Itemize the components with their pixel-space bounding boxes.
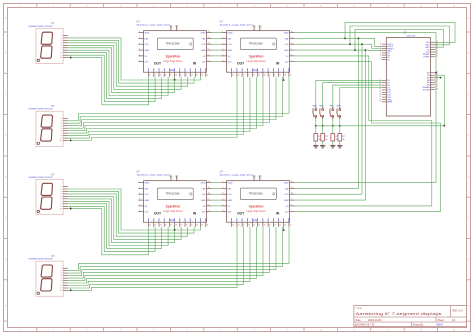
ground symbol below R2 bbox=[320, 145, 325, 148]
svg-text:5: 5 bbox=[380, 52, 381, 54]
svg-text:Aansturing 6" 7-segment displa: Aansturing 6" 7-segment displays bbox=[356, 312, 442, 316]
svg-text:6: 6 bbox=[380, 54, 381, 56]
junction 12V vertical bbox=[440, 77, 442, 79]
7-segment display DS4 bbox=[28, 256, 68, 296]
7-segment display DS3 bbox=[28, 174, 68, 214]
svg-text:4: 4 bbox=[139, 199, 140, 201]
svg-text:2: 2 bbox=[139, 187, 140, 189]
svg-text:LAT: LAT bbox=[145, 187, 150, 190]
svg-text:5: 5 bbox=[139, 54, 140, 56]
svg-text:14: 14 bbox=[155, 225, 157, 227]
svg-text:20: 20 bbox=[269, 225, 271, 227]
svg-text:13: 13 bbox=[379, 89, 381, 91]
svg-text:10: 10 bbox=[291, 43, 293, 45]
wire GND net U2 to U4 bbox=[295, 33, 436, 183]
junction SW3/rail bbox=[332, 125, 334, 127]
svg-text:1: 1 bbox=[139, 31, 140, 33]
svg-text:SER: SER bbox=[228, 50, 233, 52]
svg-text:8: 8 bbox=[208, 54, 209, 56]
wire SW3 to MCU bbox=[333, 85, 382, 107]
svg-text:2: 2 bbox=[222, 37, 223, 39]
junction at DS3 common pins bbox=[70, 206, 72, 209]
junction SW4/rail bbox=[339, 125, 341, 127]
IC U2 SparkFun Large Digit Driver (TPIC6C596) bbox=[220, 21, 295, 77]
svg-text:15: 15 bbox=[379, 94, 381, 96]
svg-text:13: 13 bbox=[232, 75, 234, 77]
wire 5V rail to switches bbox=[316, 75, 445, 126]
svg-text:12V: 12V bbox=[285, 212, 289, 214]
svg-text:8: 8 bbox=[291, 54, 292, 56]
wire SW1 to R1 bbox=[315, 119, 317, 134]
svg-text:12V: 12V bbox=[170, 68, 175, 72]
svg-text:6: 6 bbox=[222, 210, 223, 212]
svg-text:25: 25 bbox=[436, 56, 438, 58]
svg-text:OUT: OUT bbox=[237, 61, 245, 65]
svg-text:SER: SER bbox=[284, 200, 289, 202]
svg-text:24: 24 bbox=[207, 225, 209, 227]
svg-text:IN: IN bbox=[193, 211, 197, 215]
svg-text:22: 22 bbox=[279, 75, 281, 77]
svg-text:9: 9 bbox=[208, 199, 209, 201]
svg-text:11: 11 bbox=[208, 187, 210, 189]
svg-text:SER: SER bbox=[228, 200, 233, 202]
svg-text:7: 7 bbox=[172, 28, 173, 30]
svg-text:SER: SER bbox=[201, 200, 206, 202]
svg-text:10: 10 bbox=[60, 290, 62, 292]
svg-text:5: 5 bbox=[222, 54, 223, 56]
svg-text:17: 17 bbox=[253, 75, 255, 77]
svg-text:18: 18 bbox=[175, 225, 177, 227]
svg-text:20: 20 bbox=[436, 44, 438, 46]
svg-text:IN: IN bbox=[193, 61, 197, 65]
svg-text:Sparkfun_Large_Digit_Drive: Sparkfun_Large_Digit_Drive bbox=[220, 174, 254, 177]
junction 12V net below U1 bbox=[174, 77, 176, 81]
svg-text:33: 33 bbox=[436, 88, 438, 90]
svg-text:7: 7 bbox=[255, 28, 256, 30]
junction 12V net below U4 bbox=[283, 227, 285, 231]
ground symbol below R3 bbox=[330, 145, 335, 148]
svg-text:24: 24 bbox=[290, 75, 292, 77]
svg-text:OUT: OUT bbox=[237, 211, 245, 215]
svg-text:30: 30 bbox=[436, 81, 438, 83]
wire bus U1 IN to U2 OUT bbox=[212, 33, 222, 62]
svg-text:12V: 12V bbox=[228, 212, 232, 214]
junction 12V net below U3 bbox=[174, 227, 176, 231]
svg-text:12: 12 bbox=[208, 31, 210, 33]
svg-text:12V: 12V bbox=[253, 68, 258, 72]
svg-text:TPIC6C596: TPIC6C596 bbox=[249, 42, 264, 46]
resistor R2 1k bbox=[321, 134, 329, 141]
wire SW3 to R3 bbox=[332, 119, 334, 134]
svg-text:22: 22 bbox=[196, 225, 198, 227]
svg-text:14: 14 bbox=[155, 75, 157, 77]
svg-text:1k: 1k bbox=[319, 139, 321, 141]
svg-text:GND: GND bbox=[201, 33, 206, 35]
svg-text:SER: SER bbox=[284, 50, 289, 52]
svg-text:18: 18 bbox=[175, 75, 177, 77]
svg-text:14: 14 bbox=[238, 75, 240, 77]
svg-text:CLK: CLK bbox=[284, 44, 289, 46]
svg-text:TPIC6C596: TPIC6C596 bbox=[249, 192, 264, 196]
svg-text:1: 1 bbox=[222, 181, 223, 183]
svg-text:LAT: LAT bbox=[202, 187, 207, 190]
wire R2 to ground bbox=[322, 141, 324, 145]
wire 12V net U2 to U4 bbox=[295, 62, 441, 212]
svg-text:TPIC6C596: TPIC6C596 bbox=[165, 192, 180, 196]
7-segment display DS2 bbox=[28, 106, 68, 146]
svg-text:12: 12 bbox=[291, 181, 293, 183]
svg-text:LAT: LAT bbox=[145, 37, 150, 40]
svg-text:1: 1 bbox=[380, 43, 381, 45]
svg-text:15: 15 bbox=[160, 225, 162, 227]
svg-text:Sparkfun_Large_Digit_Drive: Sparkfun_Large_Digit_Drive bbox=[220, 24, 254, 27]
svg-text:16: 16 bbox=[165, 225, 167, 227]
svg-text:SER: SER bbox=[145, 50, 150, 52]
svg-text:CLK: CLK bbox=[145, 194, 150, 196]
wire LAT net U2/U4/MCU bbox=[295, 22, 455, 188]
svg-text:10: 10 bbox=[60, 57, 62, 59]
svg-text:11: 11 bbox=[291, 187, 293, 189]
svg-text:12V: 12V bbox=[228, 62, 232, 64]
svg-text:4: 4 bbox=[222, 49, 223, 51]
svg-text:12V: 12V bbox=[202, 212, 206, 214]
wire bus DS4 to U4 bottom pins bbox=[68, 227, 289, 291]
svg-text:1k: 1k bbox=[325, 139, 327, 141]
wire 5V net U2 to U4 bbox=[295, 56, 432, 206]
svg-text:16: 16 bbox=[248, 225, 250, 227]
junction SW1/rail bbox=[315, 125, 317, 127]
svg-text:17: 17 bbox=[170, 225, 172, 227]
svg-text:Drawn By:: Drawn By: bbox=[413, 324, 424, 327]
svg-text:2: 2 bbox=[222, 187, 223, 189]
svg-text:Sparkfun_Large_Digit_Drive: Sparkfun_Large_Digit_Drive bbox=[137, 24, 171, 27]
svg-text:GND: GND bbox=[284, 183, 289, 185]
svg-text:GND: GND bbox=[145, 183, 150, 185]
svg-text:12V: 12V bbox=[285, 62, 289, 64]
svg-text:3: 3 bbox=[222, 193, 223, 195]
svg-text:16: 16 bbox=[248, 75, 250, 77]
svg-text:18: 18 bbox=[379, 101, 381, 103]
svg-text:1k: 1k bbox=[343, 139, 345, 141]
svg-text:CLK: CLK bbox=[228, 44, 233, 46]
svg-text:21: 21 bbox=[191, 75, 193, 77]
svg-text:23: 23 bbox=[284, 75, 286, 77]
svg-text:10: 10 bbox=[208, 193, 210, 195]
IC U3 SparkFun Large Digit Driver (TPIC6C596) bbox=[137, 171, 212, 227]
svg-text:Sparkfun_Large_Digit_Drive: Sparkfun_Large_Digit_Drive bbox=[137, 174, 171, 177]
svg-text:EASYEDA V5.7.26: EASYEDA V5.7.26 bbox=[355, 324, 375, 327]
svg-text:13: 13 bbox=[232, 225, 234, 227]
svg-text:OUT: OUT bbox=[154, 61, 162, 65]
junction GND vertical at MCU pin bbox=[435, 72, 437, 74]
wire SW2 to R2 bbox=[322, 119, 324, 134]
svg-text:2018-10-02: 2018-10-02 bbox=[368, 318, 382, 322]
svg-text:3: 3 bbox=[139, 193, 140, 195]
wire R3 to ground bbox=[332, 141, 334, 145]
resistor R3 1k bbox=[331, 134, 339, 141]
svg-text:13: 13 bbox=[149, 75, 151, 77]
svg-text:GND: GND bbox=[145, 33, 150, 35]
svg-text:11: 11 bbox=[291, 37, 293, 39]
svg-text:4: 4 bbox=[222, 199, 223, 201]
svg-text:16: 16 bbox=[165, 75, 167, 77]
svg-text:21: 21 bbox=[274, 75, 276, 77]
svg-text:7-SEGMENT DISPLAY_KW1-56X32: 7-SEGMENT DISPLAY_KW1-56X32 bbox=[28, 258, 53, 261]
junction at DS2 common pins bbox=[70, 138, 72, 141]
svg-text:7: 7 bbox=[208, 60, 209, 62]
svg-text:21: 21 bbox=[436, 46, 438, 48]
svg-text:19: 19 bbox=[181, 75, 183, 77]
svg-text:22: 22 bbox=[196, 75, 198, 77]
svg-text:TITLE:: TITLE: bbox=[356, 308, 363, 310]
wire SW4 to R4 bbox=[339, 119, 341, 134]
switch SW3 pushbutton bbox=[329, 106, 334, 119]
svg-text:LAT: LAT bbox=[228, 187, 233, 190]
wire SW4 to MCU bbox=[340, 88, 382, 108]
ground symbol below R4 bbox=[337, 145, 342, 148]
svg-text:12V: 12V bbox=[145, 62, 149, 64]
svg-text:17: 17 bbox=[253, 225, 255, 227]
svg-text:Large Digit Driver: Large Digit Driver bbox=[163, 210, 183, 213]
svg-text:6: 6 bbox=[139, 60, 140, 62]
svg-text:7-SEGMENT DISPLAY_KW1-56X32: 7-SEGMENT DISPLAY_KW1-56X32 bbox=[28, 25, 53, 28]
svg-text:2: 2 bbox=[139, 37, 140, 39]
wire R1 to ground bbox=[315, 141, 317, 145]
svg-text:12: 12 bbox=[208, 181, 210, 183]
svg-text:SparkFun: SparkFun bbox=[249, 204, 264, 208]
IC U1 SparkFun Large Digit Driver (TPIC6C596) bbox=[137, 21, 212, 77]
wire bus U3 IN to U4 OUT bbox=[212, 183, 222, 212]
resistor R4 1k bbox=[338, 134, 346, 141]
svg-text:3: 3 bbox=[380, 47, 381, 49]
svg-text:19: 19 bbox=[264, 75, 266, 77]
svg-text:LAT: LAT bbox=[285, 37, 290, 40]
svg-text:6: 6 bbox=[139, 210, 140, 212]
svg-text:REV: 1.0: REV: 1.0 bbox=[453, 309, 464, 313]
svg-text:15: 15 bbox=[243, 225, 245, 227]
svg-text:IN: IN bbox=[276, 61, 280, 65]
IC U4 SparkFun Large Digit Driver (TPIC6C596) bbox=[220, 171, 295, 227]
svg-text:8: 8 bbox=[177, 178, 178, 180]
svg-text:12V: 12V bbox=[170, 218, 175, 222]
svg-text:IN: IN bbox=[276, 211, 280, 215]
svg-text:16: 16 bbox=[379, 96, 381, 98]
svg-text:22: 22 bbox=[436, 48, 438, 50]
svg-text:8: 8 bbox=[261, 28, 262, 30]
svg-text:9: 9 bbox=[291, 199, 292, 201]
svg-text:CLK: CLK bbox=[284, 194, 289, 196]
svg-text:20: 20 bbox=[186, 225, 188, 227]
svg-text:3: 3 bbox=[139, 43, 140, 45]
switch SW1 pushbutton bbox=[312, 106, 317, 119]
svg-text:20: 20 bbox=[186, 75, 188, 77]
svg-text:1k: 1k bbox=[336, 139, 338, 141]
svg-text:CLK: CLK bbox=[201, 44, 206, 46]
svg-text:15: 15 bbox=[243, 75, 245, 77]
svg-text:8: 8 bbox=[291, 204, 292, 206]
svg-text:15: 15 bbox=[160, 75, 162, 77]
svg-text:SER: SER bbox=[145, 200, 150, 202]
svg-text:GND: GND bbox=[228, 183, 233, 185]
svg-text:31: 31 bbox=[436, 84, 438, 86]
svg-text:CLK: CLK bbox=[201, 194, 206, 196]
svg-text:7: 7 bbox=[380, 56, 381, 58]
svg-text:4: 4 bbox=[139, 49, 140, 51]
switch SW2 pushbutton bbox=[319, 106, 324, 119]
svg-text:13: 13 bbox=[149, 225, 151, 227]
svg-text:LAT: LAT bbox=[202, 37, 207, 40]
svg-text:24: 24 bbox=[207, 75, 209, 77]
svg-text:HB M: HB M bbox=[437, 324, 443, 327]
svg-text:23: 23 bbox=[201, 225, 203, 227]
svg-text:OUT: OUT bbox=[154, 211, 162, 215]
svg-text:24: 24 bbox=[290, 225, 292, 227]
svg-text:21: 21 bbox=[274, 225, 276, 227]
svg-text:20: 20 bbox=[269, 75, 271, 77]
svg-text:SCL/A5: SCL/A5 bbox=[423, 88, 431, 91]
svg-text:7: 7 bbox=[255, 178, 256, 180]
svg-text:10: 10 bbox=[60, 208, 62, 210]
svg-text:10: 10 bbox=[60, 140, 62, 142]
svg-text:12V: 12V bbox=[253, 218, 258, 222]
wire CLK net U2/U4/MCU bbox=[295, 26, 450, 194]
svg-text:23: 23 bbox=[284, 225, 286, 227]
svg-text:AREF: AREF bbox=[387, 101, 393, 104]
svg-text:1: 1 bbox=[222, 31, 223, 33]
svg-text:TPIC6C596: TPIC6C596 bbox=[165, 42, 180, 46]
resistor R1 1k bbox=[314, 134, 322, 141]
svg-text:23: 23 bbox=[436, 51, 438, 53]
svg-text:7: 7 bbox=[208, 210, 209, 212]
svg-text:17: 17 bbox=[170, 75, 172, 77]
junction at DS1 common pins bbox=[70, 55, 72, 58]
7-segment display DS1 bbox=[28, 23, 68, 63]
svg-text:1: 1 bbox=[139, 181, 140, 183]
svg-text:12V: 12V bbox=[145, 212, 149, 214]
svg-text:19: 19 bbox=[181, 225, 183, 227]
svg-text:SparkFun: SparkFun bbox=[249, 54, 264, 58]
svg-text:10: 10 bbox=[291, 193, 293, 195]
svg-text:SER: SER bbox=[201, 50, 206, 52]
svg-text:LAT: LAT bbox=[228, 37, 233, 40]
svg-text:CLK: CLK bbox=[228, 194, 233, 196]
svg-text:2: 2 bbox=[380, 45, 381, 47]
junction SW2/rail bbox=[322, 125, 324, 127]
svg-text:9: 9 bbox=[208, 49, 209, 51]
svg-text:GND: GND bbox=[284, 33, 289, 35]
svg-text:22: 22 bbox=[279, 225, 281, 227]
junction 12V net below U2 bbox=[283, 77, 285, 81]
svg-text:3: 3 bbox=[222, 43, 223, 45]
svg-text:5: 5 bbox=[139, 204, 140, 206]
svg-text:7: 7 bbox=[291, 60, 292, 62]
svg-text:SparkFun: SparkFun bbox=[166, 54, 181, 58]
svg-text:9: 9 bbox=[291, 49, 292, 51]
svg-text:7: 7 bbox=[291, 210, 292, 212]
svg-text:GND: GND bbox=[201, 183, 206, 185]
wire R4 to ground bbox=[339, 141, 341, 145]
wire SER net U2/U4/MCU bbox=[295, 30, 444, 201]
svg-text:17: 17 bbox=[379, 98, 381, 100]
svg-text:Date:: Date: bbox=[356, 319, 362, 322]
svg-text:11: 11 bbox=[208, 37, 210, 39]
svg-text:GND: GND bbox=[228, 33, 233, 35]
op-amp U9 Arduino UNO_R3 MCU module bbox=[379, 32, 438, 116]
svg-text:7-SEGMENT DISPLAY_KW1-56X32: 7-SEGMENT DISPLAY_KW1-56X32 bbox=[28, 176, 53, 179]
svg-text:8: 8 bbox=[261, 178, 262, 180]
switch SW4 pushbutton bbox=[336, 106, 341, 119]
svg-text:5: 5 bbox=[222, 204, 223, 206]
title block bbox=[354, 306, 467, 327]
svg-text:12V: 12V bbox=[202, 62, 206, 64]
ground symbol below R1 bbox=[313, 145, 318, 148]
svg-text:LAT: LAT bbox=[285, 187, 290, 190]
junction rail/MCU bbox=[443, 125, 445, 127]
wire bus DS3 to U3 bottom pins bbox=[68, 189, 201, 255]
svg-text:IOREF: IOREF bbox=[423, 57, 430, 59]
svg-text:32: 32 bbox=[436, 86, 438, 88]
svg-text:19: 19 bbox=[264, 225, 266, 227]
svg-text:29: 29 bbox=[436, 79, 438, 81]
svg-text:14: 14 bbox=[379, 91, 381, 93]
svg-text:CLK: CLK bbox=[145, 44, 150, 46]
wire MCU right pins to power verticals bbox=[435, 73, 440, 78]
svg-text:4: 4 bbox=[380, 50, 381, 52]
svg-text:8: 8 bbox=[208, 204, 209, 206]
wire SW1 to MCU bbox=[316, 80, 382, 107]
junction at DS4 common pins bbox=[70, 288, 72, 291]
svg-text:Large Digit Driver: Large Digit Driver bbox=[246, 60, 266, 63]
svg-text:23: 23 bbox=[201, 75, 203, 77]
svg-text:12: 12 bbox=[291, 31, 293, 33]
wire bus DS2 to U2 bottom pins bbox=[68, 77, 289, 141]
wire SW2 to MCU bbox=[323, 83, 382, 107]
svg-text:SparkFun: SparkFun bbox=[166, 204, 181, 208]
svg-text:7-SEGMENT DISPLAY_KW1-56X32: 7-SEGMENT DISPLAY_KW1-56X32 bbox=[28, 108, 53, 111]
wire bus DS1 to U1 bottom pins bbox=[68, 38, 201, 105]
svg-text:Sheet:: Sheet: bbox=[438, 319, 445, 322]
svg-text:14: 14 bbox=[238, 225, 240, 227]
svg-text:Large Digit Driver: Large Digit Driver bbox=[163, 60, 183, 63]
svg-text:10: 10 bbox=[208, 43, 210, 45]
svg-text:21: 21 bbox=[191, 225, 193, 227]
svg-text:18: 18 bbox=[258, 225, 260, 227]
svg-text:Large Digit Driver: Large Digit Driver bbox=[246, 210, 266, 213]
svg-text:18: 18 bbox=[258, 75, 260, 77]
svg-text:19: 19 bbox=[436, 41, 438, 43]
svg-text:8: 8 bbox=[177, 28, 178, 30]
svg-text:24: 24 bbox=[436, 53, 438, 55]
svg-text:1/1: 1/1 bbox=[452, 318, 456, 322]
svg-text:8: 8 bbox=[380, 58, 381, 60]
svg-text:6: 6 bbox=[222, 60, 223, 62]
svg-text:7: 7 bbox=[172, 178, 173, 180]
